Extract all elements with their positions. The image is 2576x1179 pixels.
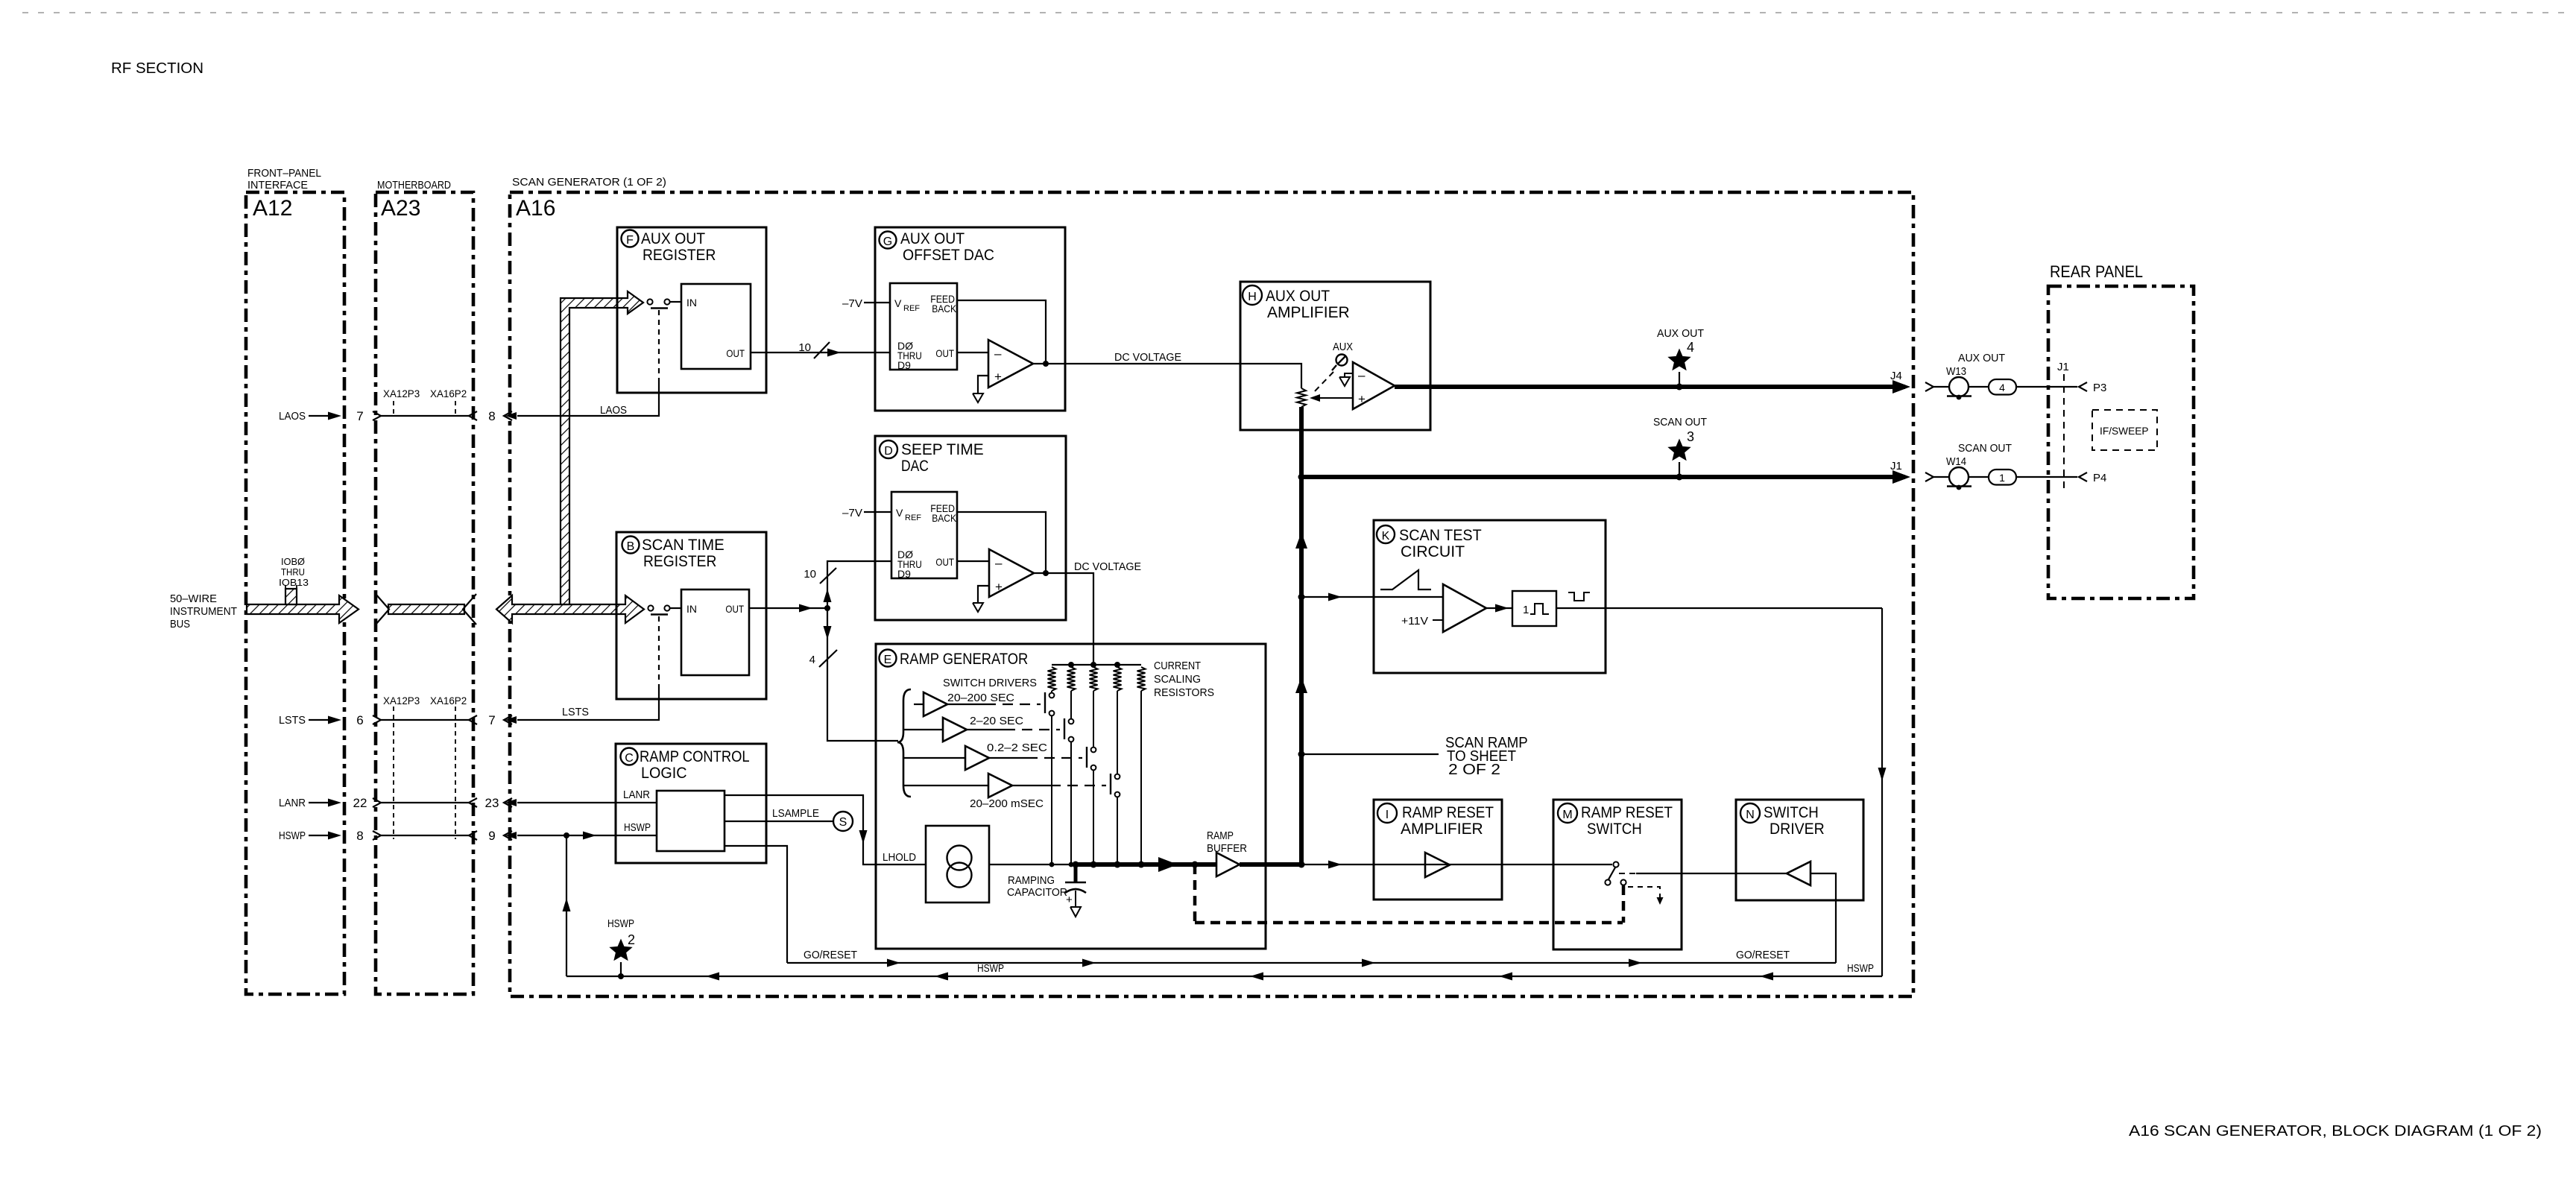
wire B OUT to bus node [749,604,827,613]
wire K output down to HSWP [1878,608,1887,976]
svg-text:CIRCUIT: CIRCUIT [1401,543,1465,560]
ramp buffer triangle [1216,853,1240,876]
wire G output DC VOLTAGE [1033,363,1240,364]
svg-text:C: C [625,752,634,765]
star SCAN OUT 3 [1667,439,1690,478]
block B SCAN TIME REGISTER box [616,532,766,699]
label LHOLD [883,851,916,864]
svg-text:4: 4 [809,654,815,666]
svg-text:7: 7 [488,713,495,727]
XA12P3 XA16P2 stubs at LSTS [383,695,467,839]
ramping capacitor [1065,865,1086,917]
svg-text:+: + [1066,894,1073,906]
G pin FEED BACK [930,293,956,314]
wire SCAN OUT thick [1301,470,1910,484]
svg-text:6: 6 [356,713,363,727]
label 50-WIRE INSTRUMENT BUS [170,592,237,630]
page top trim dashed line [22,12,2566,13]
svg-text:XA12P3: XA12P3 [383,388,420,399]
svg-text:DC VOLTAGE: DC VOLTAGE [1114,351,1181,364]
label HSWP right [1847,962,1874,975]
junction SCAN OUT star [1676,474,1683,481]
reset control branch [1628,887,1664,905]
wire W14 to tag1 [1969,476,1989,478]
svg-text:W13: W13 [1946,365,1966,378]
svg-text:W14: W14 [1946,455,1966,468]
svg-text:HSWP: HSWP [607,917,634,930]
title RAMP RESET SWITCH [1581,804,1673,838]
circle B [622,537,640,554]
svg-text:HSWP: HSWP [279,829,306,842]
label AUX [1333,341,1353,353]
svg-text:RESISTORS: RESISTORS [1154,686,1214,699]
svg-text:IN: IN [686,297,697,309]
resistor R4 20-200msec [1114,667,1122,691]
circle S sample node [833,812,853,831]
block N SWITCH DRIVER box [1736,800,1863,900]
svg-text:AUX OUT: AUX OUT [1657,327,1704,340]
svg-text:D9: D9 [897,568,911,580]
svg-text:CAPACITOR: CAPACITOR [1007,886,1067,899]
wire tag 4 [1989,379,2016,395]
op-amp D [989,549,1034,597]
svg-text:RAMP RESET: RAMP RESET [1402,804,1494,821]
svg-text:LSAMPLE: LSAMPLE [772,807,819,820]
svg-text:J1: J1 [2057,361,2069,373]
G pin D0 THRU D9 [897,340,922,371]
K comparator triangle [1443,584,1486,632]
ramp reset amplifier triangle [1425,853,1450,877]
F pin IN [686,297,697,309]
current source symbol [947,846,972,888]
switch driver 3 triangle [903,746,989,770]
XA12P3 XA16P2 stubs at LAOS [383,388,467,416]
wire D feedback [957,512,1046,573]
wire ramp buffer out thick [1240,862,1301,867]
bus width 10 marker D [804,568,836,584]
title SCAN TIME REGISTER [642,537,724,570]
svg-text:BUS: BUS [170,618,190,630]
wire driver2 to switch2 [967,729,1060,730]
F enable contacts [647,299,681,304]
wire driver4 to switch4 [1012,785,1106,786]
wire D op-amp plus input [978,586,989,603]
one-shot box [1512,591,1556,626]
svg-text:OFFSET DAC: OFFSET DAC [903,247,994,264]
text A23 [381,196,420,221]
svg-text:BACK: BACK [932,512,956,524]
junction HSWP star [618,973,624,979]
wire D DAC out to op-amp [957,560,989,562]
wire F enable to LAOS [517,309,668,417]
op-amp G [988,340,1033,388]
svg-text:23: 23 [485,796,499,810]
LAOS interface row [279,409,517,423]
J1 rear dashed line [2063,374,2065,492]
svg-text:RF SECTION: RF SECTION [111,60,203,77]
svg-text:P3: P3 [2093,382,2106,394]
switch driver 4 triangle [903,774,1012,797]
label 4 star [1687,340,1694,355]
switch arm [1609,867,1615,879]
svg-text:AUX OUT: AUX OUT [1958,352,2005,364]
junction scan out at ramp [1298,474,1305,481]
label J4 [1890,370,1902,382]
instrument bus segment in A16 into B register [496,595,644,623]
svg-text:–7V: –7V [842,507,862,519]
wire G feedback [957,300,1046,364]
brace for switch drivers [897,689,911,797]
svg-text:SCAN GENERATOR (1 OF 2): SCAN GENERATOR (1 OF 2) [512,176,666,189]
circle G [880,232,897,249]
svg-text:–: – [1358,368,1366,382]
svg-text:20–200 mSEC: 20–200 mSEC [970,797,1044,810]
svg-text:LSTS: LSTS [562,706,589,718]
svg-text:G: G [883,236,892,248]
wire GO/RESET [787,959,1836,967]
svg-text:SWITCH: SWITCH [1587,821,1642,838]
connector J4 chevron [1925,382,1933,391]
label 3 star [1687,429,1694,444]
svg-text:0.2–2 SEC: 0.2–2 SEC [987,742,1047,754]
label LSTS at B [562,706,589,718]
wire LHOLD route [724,795,926,865]
connector J1 chevron [1925,472,1933,481]
circle N [1740,803,1760,823]
junction HSWP branch [563,832,569,838]
svg-text:D9: D9 [897,359,911,371]
label J1 rear [2057,361,2069,373]
label FRONT-PANEL INTERFACE [247,167,321,192]
label HSWP star [607,917,634,930]
svg-text:MOTHERBOARD: MOTHERBOARD [377,179,451,192]
circle D [880,440,897,458]
ramp bus thick [1073,862,1217,868]
label SCAN OUT rear [1958,442,2012,455]
svg-text:REAR PANEL: REAR PANEL [2050,262,2143,281]
circle I [1377,803,1397,823]
svg-text:REF: REF [903,304,920,313]
wire -7V to D VREF [864,511,891,513]
svg-text:IF/SWEEP: IF/SWEEP [2100,425,2149,437]
current scaling resistor top bus [1052,664,1141,666]
junction AUX OUT star [1676,384,1683,391]
svg-text:SCAN OUT: SCAN OUT [1653,416,1707,429]
block F AUX OUT REGISTER box [617,227,766,393]
wire DC voltage into H [1240,364,1301,388]
label GO/RESET left [804,949,857,961]
resistor R5 [1137,667,1146,691]
wire GO/RESET from logic [724,846,787,963]
pot wiper arrow [1310,394,1352,402]
label 2-20 SEC [970,715,1023,727]
svg-text:LOGIC: LOGIC [641,765,687,782]
D pin FEED BACK [930,502,956,524]
label 20-200 SEC [947,692,1014,704]
svg-text:V: V [896,507,903,519]
D pin VREF [896,507,921,522]
wire K output [1556,607,1882,609]
resistor R2 2-20sec [1067,667,1076,691]
svg-text:INTERFACE: INTERFACE [247,179,308,192]
svg-text:REF: REF [905,513,921,522]
label HSWP mid [977,962,1004,975]
IOB0 THRU IOB13 stub [285,585,297,604]
switch 2 [1064,691,1073,865]
switch 4 [1111,691,1120,865]
instrument bus segment in A12 with arrow [247,595,359,623]
C logic inner box [657,791,724,851]
svg-text:8: 8 [488,409,495,423]
pulse waveform glyph [1568,592,1590,601]
svg-text:CURRENT: CURRENT [1154,660,1201,672]
label DC VOLTAGE upper [1114,351,1181,364]
wire tag1 to P4 [2016,476,2077,478]
B register inner box [681,589,749,675]
svg-text:20–200 SEC: 20–200 SEC [947,692,1014,704]
wire HSWP in [517,832,657,840]
label W14 [1946,455,1966,468]
wire -7V to G VREF [864,302,890,303]
svg-text:OUT: OUT [935,556,954,568]
svg-text:LAOS: LAOS [279,410,306,423]
svg-text:AMPLIFIER: AMPLIFIER [1267,304,1350,321]
wire N driver to switch [1636,873,1787,874]
svg-text:BUFFER: BUFFER [1207,842,1247,855]
title SWITCH DRIVER [1764,804,1825,838]
svg-text:SCAN OUT: SCAN OUT [1958,442,2012,455]
switch driver 2 triangle [903,718,967,742]
label AUX OUT star [1657,327,1704,340]
F pin OUT [726,347,745,359]
switch drive dashed [1619,873,1636,874]
label SCAN RAMP TO SHEET 2 OF 2 [1445,735,1528,778]
wire J1 to W14 [1933,476,1950,478]
wire G DAC out to op-amp [957,352,988,353]
svg-text:A12: A12 [253,196,292,221]
svg-text:AUX OUT: AUX OUT [641,230,705,247]
svg-text:REGISTER: REGISTER [643,553,716,570]
svg-text:N: N [1746,809,1755,821]
svg-text:AMPLIFIER: AMPLIFIER [1401,821,1483,838]
svg-text:8: 8 [356,829,363,843]
junction ramp reset dashed branch [1192,862,1199,868]
svg-text:D: D [884,445,893,458]
wire G op-amp plus input [978,376,988,393]
svg-text:3: 3 [1687,429,1694,444]
cable W13 loop [1947,377,1972,399]
caption A16 SCAN GENERATOR, BLOCK DIAGRAM (1 OF 2) [2129,1123,2542,1140]
wire B enable to LSTS [517,615,668,721]
block H AUX OUT AMPLIFIER box [1240,282,1430,430]
svg-text:50–WIRE: 50–WIRE [170,592,217,605]
svg-text:FRONT–PANEL: FRONT–PANEL [247,167,321,180]
wire GO/RESET to driver [1811,873,1836,963]
svg-text:INSTRUMENT: INSTRUMENT [170,605,237,618]
svg-text:AUX OUT: AUX OUT [900,230,965,247]
G pin VREF [894,297,920,313]
instrument bus segment in A23 [388,604,464,614]
svg-text:10: 10 [804,568,816,581]
svg-text:RAMPING: RAMPING [1008,874,1055,887]
svg-text:LAOS: LAOS [600,404,627,417]
op-amp H [1353,362,1395,409]
label J1 left [1890,460,1902,472]
wire R5 to ramp bus [1140,691,1142,865]
svg-text:J1: J1 [1890,460,1902,472]
svg-text:REGISTER: REGISTER [643,247,716,264]
label LANR pin [623,788,650,801]
wire scan ramp to sheet 2 [1301,753,1439,755]
svg-text:GO/RESET: GO/RESET [804,949,857,961]
text A12 [253,196,292,221]
resistor R1 20-200sec [1048,667,1056,691]
cable W14 loop [1947,467,1972,490]
one-shot glyph 1-pulse [1523,604,1549,616]
ground D op-amp [973,603,983,612]
svg-text:4: 4 [1999,382,2005,393]
svg-text:S: S [839,816,847,829]
label 20-200 mSEC [970,797,1044,810]
wire 10-bus up to D DAC [824,561,892,608]
block M RAMP RESET SWITCH box [1553,800,1682,949]
G DAC inner box [890,283,957,370]
wire AUX OUT thick [1395,380,1910,393]
svg-text:K: K [1382,530,1390,543]
wire LANR [517,802,657,803]
svg-text:OUT: OUT [935,347,954,359]
title AUX OUT OFFSET DAC [900,230,994,264]
label CURRENT SCALING RESISTORS [1154,660,1214,699]
title RAMP CONTROL LOGIC [640,748,750,782]
svg-text:SCAN TEST: SCAN TEST [1399,527,1482,544]
svg-text:SCALING: SCALING [1154,673,1201,686]
B pin OUT [725,603,744,615]
svg-text:+: + [1358,392,1366,406]
star HSWP 2 [609,939,632,977]
connector P3 chevron [2079,382,2087,391]
label DC VOLTAGE lower [1074,560,1141,573]
label IOB0 THRU IOB13 [279,556,309,588]
bus break chevron left [376,594,389,625]
svg-text:LANR: LANR [623,788,650,801]
svg-text:1: 1 [1523,604,1529,616]
label W13 [1946,365,1966,378]
svg-text:A23: A23 [381,196,420,221]
svg-text:1: 1 [1999,472,2005,484]
connector P4 chevron [2079,472,2087,481]
svg-text:J4: J4 [1890,370,1902,382]
label SWITCH DRIVERS [943,677,1037,689]
switch 1 [1045,691,1054,865]
text RF SECTION [111,60,203,77]
svg-text:OUT: OUT [725,603,744,615]
svg-text:HSWP: HSWP [1847,962,1874,975]
title RAMP RESET AMPLIFIER [1401,804,1494,838]
switch 3 [1087,691,1096,865]
svg-text:LHOLD: LHOLD [883,851,916,864]
svg-text:P4: P4 [2093,472,2106,484]
svg-text:DAC: DAC [901,458,929,475]
switch driver triangle [1787,862,1811,885]
svg-text:E: E [884,654,892,666]
svg-text:SWITCH: SWITCH [1764,804,1819,821]
svg-text:–7V: –7V [842,297,862,310]
label MOTHERBOARD [377,179,451,192]
title SCAN TEST CIRCUIT [1399,527,1482,560]
wire W13 to tag4 [1969,386,1989,388]
D pin OUT [935,556,954,568]
svg-text:GO/RESET: GO/RESET [1736,949,1790,961]
LANR interface row [279,796,517,810]
label IF/SWEEP [2100,425,2149,437]
scan ramp vertical thick [1295,407,1307,865]
label SCAN GENERATOR (1 OF 2) [512,176,666,189]
wire H plus input [1352,397,1353,399]
svg-text:OUT: OUT [726,347,745,359]
wire driver1 to switch1 [947,704,1041,705]
circle M [1558,803,1577,823]
instrument bus riser to F register [561,291,643,604]
svg-text:LANR: LANR [279,797,306,809]
svg-text:–: – [994,347,1002,361]
wire tag4 to P3 [2016,386,2077,388]
svg-text:A16: A16 [516,196,555,221]
D pin D0 THRU D9 [897,549,922,580]
wire F OUT bus [751,349,890,357]
A12 front-panel interface box [246,192,344,994]
svg-text:RAMP: RAMP [1207,829,1234,842]
ground G op-amp [973,393,983,402]
AUX adjust symbol [1332,355,1348,371]
block C RAMP CONTROL LOGIC box [616,744,766,863]
label -7V at G [842,297,862,310]
svg-text:–: – [995,556,1003,570]
circle K [1377,525,1395,543]
label AUX OUT rear [1958,352,2005,364]
svg-text:7: 7 [356,409,363,423]
label RAMP BUFFER [1207,829,1247,855]
svg-text:IN: IN [686,603,697,615]
title AUX OUT REGISTER [641,230,716,264]
block E RAMP GENERATOR box [876,644,1266,949]
D DAC inner box [891,492,957,578]
junction scan ramp at buffer [1298,862,1305,868]
title SEEP TIME DAC [901,441,984,475]
svg-text:DC VOLTAGE: DC VOLTAGE [1074,560,1141,573]
wire current source out [989,864,1082,865]
label LSAMPLE [772,807,819,820]
label -7V at D [842,507,862,519]
svg-text:+: + [995,580,1003,594]
block D SEEP TIME DAC box [875,436,1066,620]
svg-text:H: H [1248,291,1257,303]
circle H [1243,285,1262,305]
svg-text:XA12P3: XA12P3 [383,695,420,707]
switch contact lower [1605,879,1610,885]
label GO/RESET right [1736,949,1790,961]
star AUX OUT 4 [1667,349,1690,388]
svg-text:9: 9 [488,829,495,843]
circle F [622,230,639,247]
svg-text:+11V: +11V [1401,615,1428,628]
svg-text:22: 22 [353,796,367,810]
svg-text:10: 10 [798,341,811,354]
svg-text:RAMP GENERATOR: RAMP GENERATOR [900,651,1028,668]
block G AUX OUT OFFSET DAC box [875,227,1065,411]
wire K comparator to one-shot [1486,604,1512,613]
label +11V [1401,615,1443,628]
